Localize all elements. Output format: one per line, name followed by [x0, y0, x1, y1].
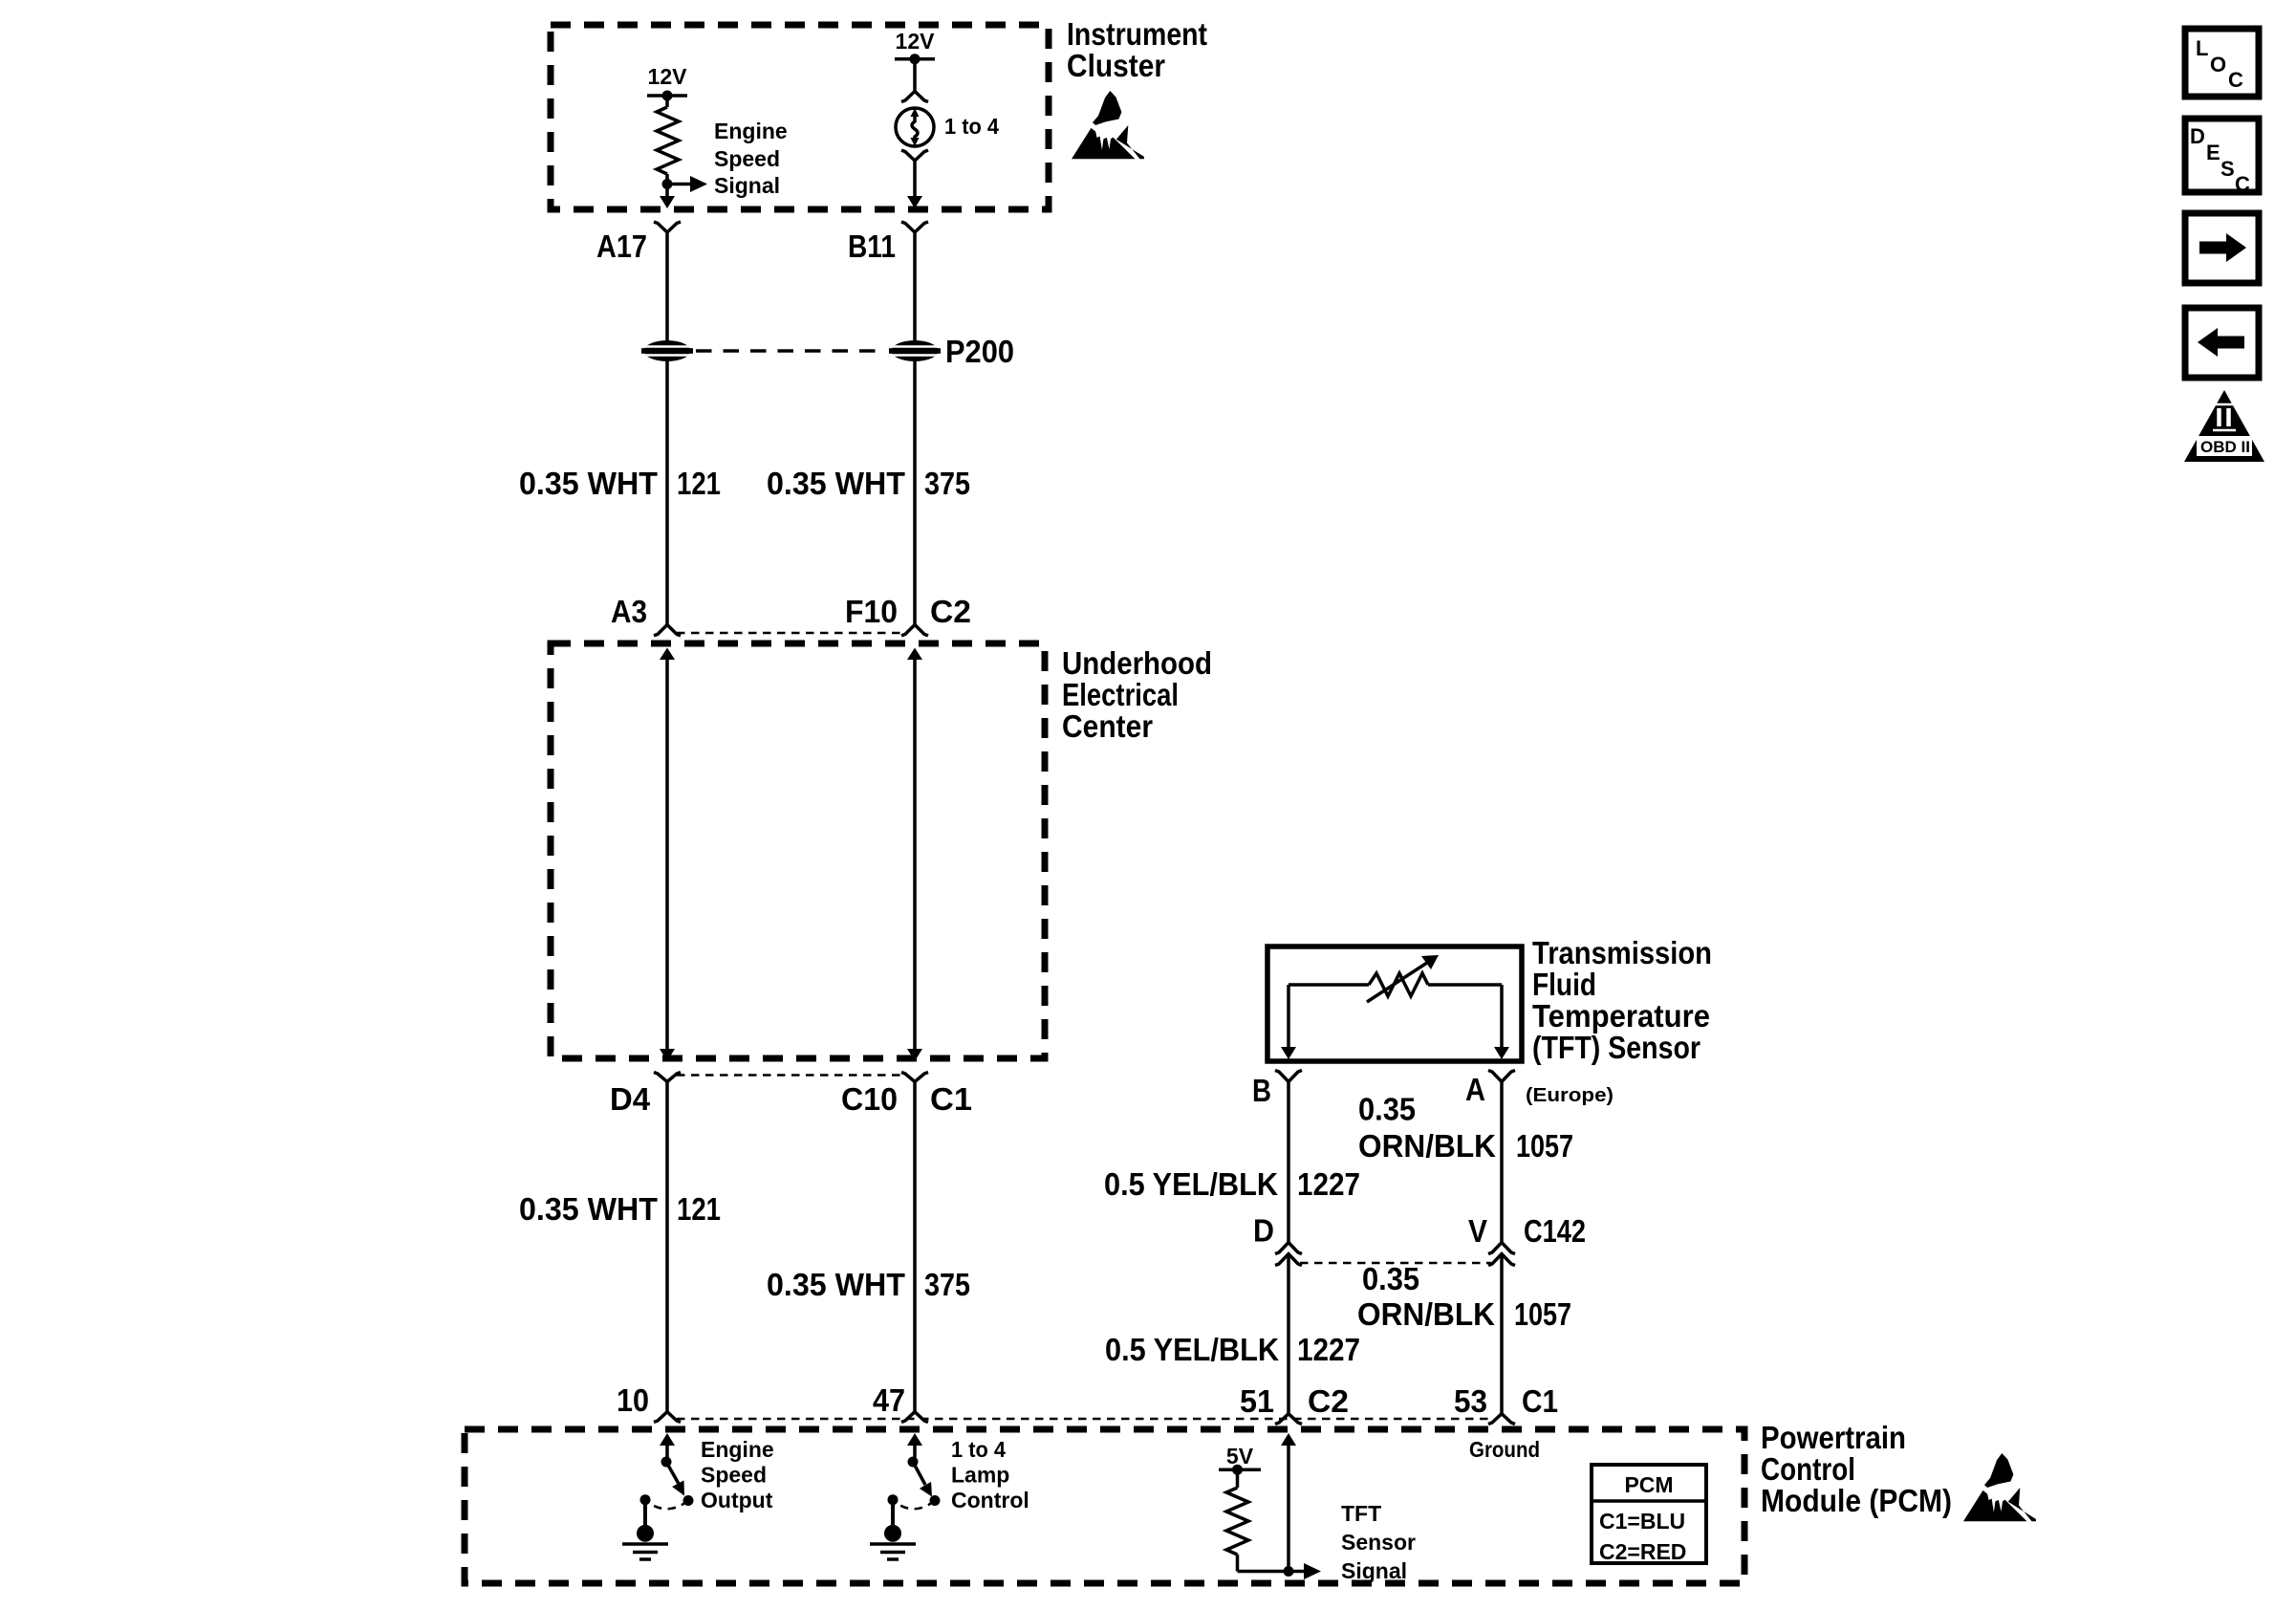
svg-text:L: L: [2196, 36, 2208, 60]
svg-text:12V: 12V: [648, 64, 688, 89]
svg-text:Instrument: Instrument: [1067, 16, 1207, 52]
svg-text:C: C: [2235, 172, 2250, 196]
svg-text:Sensor: Sensor: [1341, 1530, 1416, 1555]
svg-text:Cluster: Cluster: [1067, 48, 1165, 83]
svg-text:C1: C1: [930, 1081, 972, 1117]
svg-text:375: 375: [924, 1267, 970, 1302]
svg-text:(Europe): (Europe): [1526, 1085, 1614, 1106]
svg-text:C1: C1: [1522, 1383, 1558, 1419]
svg-text:47: 47: [873, 1382, 905, 1418]
svg-text:0.35 WHT: 0.35 WHT: [519, 466, 658, 501]
svg-text:C2: C2: [1308, 1383, 1349, 1419]
svg-text:1 to 4: 1 to 4: [951, 1437, 1006, 1462]
svg-text:D4: D4: [610, 1081, 651, 1117]
svg-text:Signal: Signal: [1341, 1558, 1407, 1583]
svg-text:12V: 12V: [896, 29, 936, 54]
svg-text:Engine: Engine: [701, 1437, 774, 1462]
svg-text:Speed: Speed: [701, 1463, 767, 1488]
svg-text:F10: F10: [845, 594, 898, 629]
svg-text:D: D: [2190, 124, 2205, 148]
svg-text:A: A: [1465, 1072, 1485, 1107]
svg-text:PCM: PCM: [1624, 1472, 1673, 1497]
svg-text:Output: Output: [701, 1488, 773, 1512]
svg-text:5V: 5V: [1226, 1444, 1254, 1469]
svg-text:Center: Center: [1062, 708, 1153, 744]
svg-text:0.5 YEL/BLK: 0.5 YEL/BLK: [1105, 1332, 1279, 1367]
svg-text:0.35 WHT: 0.35 WHT: [519, 1191, 658, 1227]
svg-text:Temperature: Temperature: [1532, 998, 1710, 1033]
svg-text:121: 121: [677, 466, 721, 501]
svg-text:51: 51: [1240, 1383, 1274, 1419]
svg-text:1227: 1227: [1297, 1332, 1360, 1367]
svg-text:Module (PCM): Module (PCM): [1761, 1483, 1952, 1518]
svg-text:B11: B11: [848, 228, 896, 264]
svg-text:1227: 1227: [1297, 1166, 1360, 1202]
svg-text:Underhood: Underhood: [1062, 645, 1212, 681]
svg-text:C142: C142: [1524, 1213, 1586, 1249]
svg-text:0.35: 0.35: [1358, 1092, 1416, 1127]
svg-text:A17: A17: [596, 228, 647, 264]
svg-text:1 to 4: 1 to 4: [944, 114, 999, 139]
svg-text:D: D: [1253, 1213, 1274, 1249]
svg-text:0.5 YEL/BLK: 0.5 YEL/BLK: [1104, 1166, 1278, 1202]
svg-text:O: O: [2210, 53, 2226, 76]
svg-text:ORN/BLK: ORN/BLK: [1357, 1296, 1495, 1332]
svg-text:Lamp: Lamp: [951, 1463, 1009, 1488]
svg-text:1057: 1057: [1514, 1296, 1571, 1332]
svg-text:C10: C10: [841, 1081, 898, 1117]
svg-text:53: 53: [1454, 1383, 1487, 1419]
svg-text:C1=BLU: C1=BLU: [1599, 1509, 1685, 1534]
svg-text:375: 375: [924, 466, 970, 501]
svg-text:Signal: Signal: [714, 173, 780, 198]
svg-text:OBD II: OBD II: [2200, 438, 2250, 456]
svg-text:121: 121: [677, 1191, 721, 1227]
svg-text:ORN/BLK: ORN/BLK: [1358, 1128, 1496, 1164]
svg-text:TFT: TFT: [1341, 1501, 1381, 1526]
svg-text:C: C: [2228, 68, 2243, 92]
svg-text:Control: Control: [951, 1488, 1029, 1512]
svg-text:Speed: Speed: [714, 146, 780, 171]
svg-text:(TFT) Sensor: (TFT) Sensor: [1532, 1030, 1700, 1065]
svg-text:Transmission: Transmission: [1532, 935, 1712, 970]
svg-text:1057: 1057: [1516, 1128, 1573, 1164]
svg-text:Fluid: Fluid: [1532, 967, 1596, 1002]
svg-text:B: B: [1252, 1073, 1271, 1108]
svg-text:P200: P200: [945, 334, 1014, 369]
svg-text:V: V: [1468, 1213, 1487, 1249]
svg-text:10: 10: [617, 1382, 649, 1418]
svg-text:0.35 WHT: 0.35 WHT: [767, 466, 905, 501]
svg-text:Powertrain: Powertrain: [1761, 1420, 1906, 1455]
svg-text:Ground: Ground: [1469, 1437, 1540, 1462]
svg-text:C2: C2: [930, 594, 971, 629]
svg-text:C2=RED: C2=RED: [1599, 1539, 1686, 1564]
svg-text:Electrical: Electrical: [1062, 677, 1179, 712]
svg-text:0.35: 0.35: [1362, 1261, 1419, 1296]
svg-text:Control: Control: [1761, 1451, 1855, 1487]
svg-text:Engine: Engine: [714, 119, 788, 143]
svg-text:A3: A3: [611, 594, 647, 629]
svg-text:E: E: [2206, 141, 2220, 164]
svg-text:S: S: [2220, 157, 2235, 181]
svg-text:0.35 WHT: 0.35 WHT: [767, 1267, 905, 1302]
